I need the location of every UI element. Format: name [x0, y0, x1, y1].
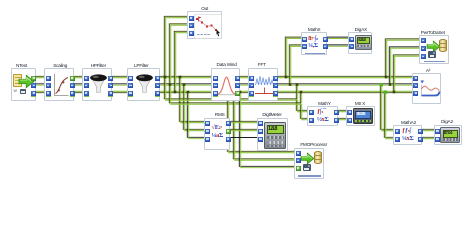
wire to PwrToDaSet input 1: [385, 39, 420, 77]
wire MathX2 to MtrX: [337, 110, 347, 119]
wire long branch to MathX2 input 2: [169, 85, 308, 120]
block NTest (waveform file source): [11, 68, 36, 101]
wire MathX to DigAX: [326, 37, 349, 46]
block FFT: [248, 68, 278, 101]
block MathX (math language): [301, 32, 327, 55]
wire main row1 chain y77: [35, 76, 413, 77]
wire to RMS input 2: [183, 85, 204, 131]
block MtrX (blue meter): [346, 106, 375, 125]
wire to Out input 3: [174, 31, 188, 92]
block A2 (spectrum sink): [412, 73, 442, 104]
block DigA2 (digital readout): [434, 125, 462, 145]
wire to RMS input 3: [187, 92, 204, 139]
wire to FMProcessor input 3: [239, 92, 295, 168]
wire stub row2 to MathX2 bus: [296, 85, 301, 104]
block DataWind (window): [211, 68, 239, 101]
wire long branch to MathX2 input 1: [164, 77, 308, 112]
wire to Out input 1: [164, 16, 188, 77]
wire to PwrToDaSet input 2: [389, 47, 420, 85]
junction green nodes right: [380, 83, 387, 94]
wire to Out input 2: [169, 24, 188, 85]
block HPFilter: [82, 68, 112, 101]
wire to MathX input 2: [289, 45, 301, 85]
junction dots right bundle: [385, 76, 396, 94]
wire to MathX input 1: [285, 37, 301, 77]
block Out (time sink display): [187, 11, 222, 39]
block DigAX (digital readout): [348, 32, 372, 54]
wire to FMProcessor input 1: [227, 77, 295, 153]
wire to MathA2 input 1: [380, 85, 394, 131]
block MathA2 (math): [393, 125, 422, 145]
wire to MathA2 input 2: [384, 92, 394, 139]
block DigtlMeter: [257, 118, 289, 152]
junction dots middle bundle: [227, 76, 303, 94]
wire to FMProcessor input 2: [233, 85, 295, 161]
block RMS (math): [204, 118, 231, 151]
block MathX2 (math): [307, 106, 338, 126]
wire RMS to DigtlMeter: [230, 121, 258, 137]
wire main row2 chain y84.5: [35, 84, 413, 85]
block LPFilter: [127, 68, 160, 101]
junction dots left bundle: [164, 76, 190, 94]
block Scaling: [44, 68, 74, 101]
wire to RMS input 1: [179, 77, 204, 123]
wire MathA2 to DigA2: [417, 129, 435, 138]
block PwrToDaSet (write dataset): [419, 35, 449, 64]
block FMOProcessor (record to file): [294, 148, 324, 179]
wire main row3 chain y92: [35, 91, 413, 92]
wire to PwrToDaSet input 3: [393, 55, 420, 92]
